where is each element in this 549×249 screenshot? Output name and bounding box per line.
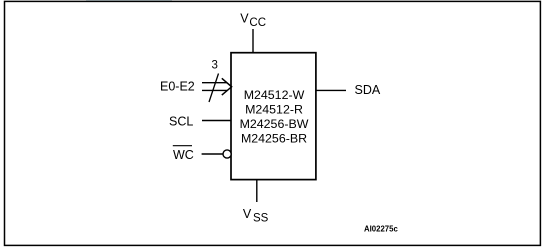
svg-text:WC: WC [173,148,194,162]
svg-text:SS: SS [253,212,269,224]
svg-text:AI02275c: AI02275c [364,224,398,233]
svg-text:V: V [243,207,252,221]
svg-text:SCL: SCL [169,115,193,129]
svg-text:M24512-R: M24512-R [245,103,303,117]
svg-text:V: V [240,11,249,25]
svg-text:M24512-W: M24512-W [244,88,305,102]
svg-text:SDA: SDA [355,83,381,97]
svg-text:M24256-BR: M24256-BR [241,132,307,146]
svg-text:CC: CC [249,17,266,29]
svg-text:E0-E2: E0-E2 [160,80,195,94]
svg-text:M24256-BW: M24256-BW [240,117,309,131]
svg-text:3: 3 [212,59,218,71]
